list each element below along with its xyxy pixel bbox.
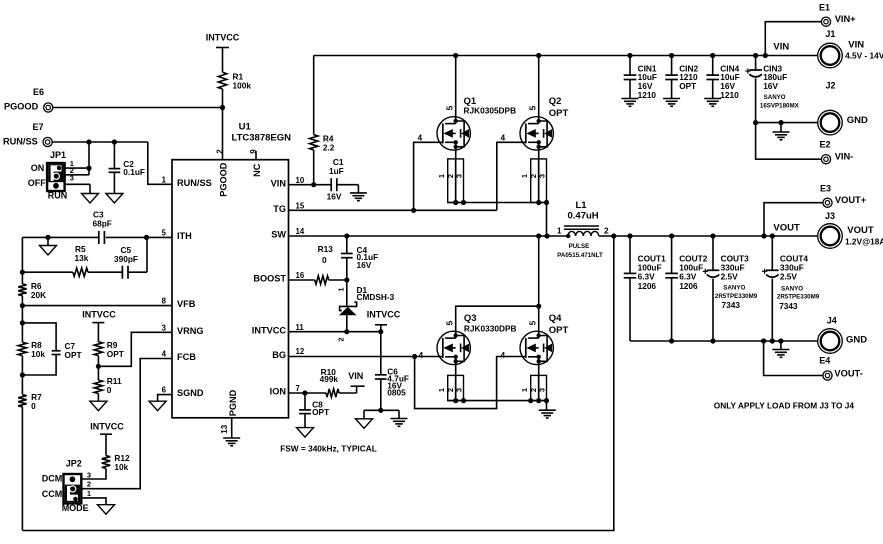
label COUT3 value: [721, 253, 750, 281]
svg-text:16V: 16V: [327, 191, 342, 201]
label Q1 gate pin4: [418, 132, 423, 142]
svg-text:3: 3: [455, 174, 464, 178]
wire E1 riser: [765, 22, 821, 56]
capacitor C6: [375, 332, 387, 411]
junction rail-Q2: [536, 53, 541, 58]
pin U1 VRNG name: [177, 326, 204, 336]
label R7 value: [31, 392, 42, 411]
resistor R10: [326, 389, 339, 397]
wire pads rail bottom: [448, 398, 547, 410]
capacitor C5: [122, 266, 128, 279]
svg-text:390pF: 390pF: [114, 254, 138, 264]
pin number 8: [162, 297, 167, 306]
pin U1 VIN name: [271, 178, 287, 188]
pin U1 BG name: [272, 350, 286, 360]
svg-text:RJK0305DPB: RJK0305DPB: [464, 105, 517, 115]
svg-text:J3: J3: [825, 211, 835, 221]
svg-text:2: 2: [529, 174, 538, 178]
svg-text:VOUT+: VOUT+: [835, 195, 867, 205]
ground CIN2: [663, 99, 680, 107]
label J1: [825, 29, 883, 60]
svg-text:TG: TG: [273, 204, 286, 214]
wire JP2 pin1 to ground: [81, 498, 106, 505]
svg-text:3: 3: [162, 323, 167, 332]
ground PGND: [223, 438, 240, 446]
package Q3 pads: [448, 375, 466, 403]
label CIN3 value: [763, 63, 787, 91]
pin U1 BOOST name: [253, 274, 286, 284]
wire RUN/SS net: [52, 142, 172, 184]
label D1 pin2: [337, 337, 346, 341]
pin number 5: [162, 229, 167, 238]
svg-text:SANYO: SANYO: [781, 286, 803, 293]
junction VFB: [20, 303, 25, 308]
resistor R9: [94, 342, 102, 356]
svg-text:1206: 1206: [679, 281, 698, 291]
label J3: [825, 211, 883, 247]
label C7 value: [65, 341, 82, 360]
svg-text:4: 4: [418, 132, 423, 142]
pin number 10: [296, 176, 305, 185]
pin U1 TG name: [273, 204, 286, 214]
wire PGND pin13: [231, 418, 233, 438]
svg-text:VOUT: VOUT: [773, 222, 800, 233]
diode D1 CMDSH-3: [339, 280, 357, 332]
pin U1 VFB name: [177, 299, 196, 309]
wire VRNG net: [98, 332, 172, 366]
svg-text:13: 13: [220, 424, 229, 433]
wire INTVCC to R12: [105, 434, 107, 455]
wire INTVCC to R1: [222, 48, 224, 73]
terminal E7: [43, 137, 52, 146]
junction VOUT-COUT3: [710, 233, 715, 238]
svg-text:E1: E1: [819, 2, 830, 12]
connector J3: [818, 224, 843, 249]
label Q1 pads pins: [437, 174, 463, 178]
svg-text:VOUT: VOUT: [847, 225, 874, 236]
pin number 3: [162, 323, 167, 332]
label JP1: [50, 150, 66, 160]
svg-text:GND: GND: [846, 335, 867, 346]
resistor R1: [218, 72, 226, 89]
wire BOOST net: [289, 279, 347, 281]
junction comp node: [20, 270, 25, 275]
junction GND-COUT4: [770, 338, 775, 343]
svg-text:2: 2: [87, 480, 91, 489]
pin number 16: [296, 271, 305, 280]
terminal E4: [823, 371, 832, 380]
wire R12 to JP2 pin3: [81, 469, 106, 480]
label R1 value: [233, 72, 252, 91]
svg-text:12: 12: [296, 347, 305, 356]
svg-text:VIN: VIN: [848, 39, 864, 50]
svg-text:4: 4: [501, 132, 506, 142]
ground C1: [350, 193, 367, 201]
svg-text:6: 6: [162, 386, 167, 395]
pin number 14: [296, 227, 305, 236]
svg-text:2.2: 2.2: [323, 143, 335, 153]
wire VFB to R8: [21, 306, 23, 343]
transistor Q1 RJK0305DPB: [437, 56, 470, 151]
package Q1 pads: [448, 159, 466, 205]
inductor L1: [564, 226, 599, 238]
junction GND-E4: [761, 338, 766, 343]
node INTVCC (top): [206, 32, 240, 47]
svg-text:U1: U1: [239, 122, 252, 133]
pin number 7: [296, 384, 300, 393]
svg-text:5: 5: [445, 320, 455, 325]
svg-text:JP1: JP1: [50, 150, 66, 160]
wire SGND to ground: [158, 395, 172, 402]
wire JP1 pin3 to ground: [65, 184, 90, 193]
capacitor COUT1: [624, 236, 637, 341]
svg-text:4: 4: [419, 350, 424, 360]
wire PGOOD net: [53, 108, 223, 160]
junction JP1 pin1: [86, 166, 91, 171]
ground Q3/Q4 source: [539, 410, 556, 418]
node INTVCC (mid): [82, 310, 116, 323]
node VIN tag: [348, 371, 364, 386]
transistor Q3 RJK0330DPB: [437, 331, 470, 364]
svg-text:R13: R13: [318, 244, 334, 254]
svg-text:1: 1: [557, 225, 562, 235]
label C2 value: [123, 159, 145, 177]
ground C8: [297, 428, 314, 438]
svg-text:INTVCC: INTVCC: [367, 309, 401, 319]
label Q4 pads pins: [520, 388, 546, 392]
wire SW to Q3/Q4 drains: [456, 236, 539, 331]
transistor Q2 OPT: [520, 56, 553, 151]
capacitor CIN3: [745, 56, 762, 123]
label R6 value: [31, 281, 46, 300]
pin U1 ION name: [270, 387, 287, 397]
svg-text:1210: 1210: [720, 90, 739, 100]
pin number 4: [162, 350, 167, 359]
pin U1 FCB name: [177, 352, 196, 362]
svg-text:2R5TPE330M9: 2R5TPE330M9: [777, 294, 820, 301]
label Q3 pads pins: [437, 388, 463, 392]
svg-text:OPT: OPT: [107, 349, 124, 359]
node INTVCC (bottom): [90, 421, 124, 434]
junction R9/R11/VRNG: [96, 364, 101, 369]
svg-text:0.1uF: 0.1uF: [123, 167, 145, 177]
svg-text:ION: ION: [270, 387, 287, 397]
label CIN4 value: [720, 63, 739, 100]
svg-text:J4: J4: [827, 316, 837, 326]
transistor Q4 OPT: [520, 331, 553, 364]
junction VOUT-feedback: [611, 233, 616, 238]
pin U1 INTVCC name: [252, 325, 287, 335]
svg-text:10k: 10k: [31, 349, 45, 359]
pin number 11: [296, 323, 305, 332]
svg-text:68pF: 68pF: [93, 219, 112, 229]
connector J2: [818, 110, 843, 135]
wire C6 grounds: [364, 410, 399, 419]
ground JP2: [98, 505, 115, 515]
svg-text:PA0515.471NLT: PA0515.471NLT: [557, 252, 603, 259]
junction ITH-gnd: [45, 235, 50, 240]
label JP2: [66, 458, 82, 468]
svg-text:5: 5: [528, 320, 538, 325]
wire CIN3 gnd line: [756, 122, 818, 124]
wire VIN rail: [314, 55, 818, 57]
wire R9 to R11: [97, 356, 99, 381]
svg-text:LTC3878EGN: LTC3878EGN: [232, 133, 292, 144]
junction CIN3 bottom: [753, 120, 758, 125]
capacitor C7: [22, 323, 60, 375]
label JP1 OFF: [28, 178, 46, 188]
svg-text:VIN+: VIN+: [835, 14, 856, 24]
label R13 value: [318, 244, 334, 265]
svg-text:16SVP180MX: 16SVP180MX: [760, 103, 800, 110]
resistor R13: [315, 276, 329, 284]
svg-text:E6: E6: [33, 87, 44, 97]
junction rail-CIN2: [669, 53, 674, 58]
svg-text:0: 0: [31, 401, 36, 411]
svg-text:1: 1: [87, 489, 91, 498]
label R12 value: [114, 453, 130, 472]
label C6 value: [387, 367, 409, 398]
jumper JP1: [47, 163, 65, 191]
svg-text:0: 0: [107, 385, 112, 395]
svg-text:100k: 100k: [233, 81, 252, 91]
capacitor CIN4: [706, 56, 719, 99]
resistor R7: [18, 395, 26, 407]
label JP1 RUN: [48, 191, 68, 201]
junction VOUT-E3: [761, 233, 766, 238]
ground C6 left: [356, 419, 373, 429]
svg-text:ITH: ITH: [177, 231, 192, 241]
svg-text:INTVCC: INTVCC: [90, 421, 124, 431]
svg-text:RUN: RUN: [48, 191, 68, 201]
op-amp U1 LTC3878EGN body: [172, 160, 289, 418]
svg-text:20K: 20K: [31, 290, 46, 300]
capacitor COUT4: [762, 236, 779, 341]
svg-text:10: 10: [296, 176, 305, 185]
pin number 12: [296, 347, 305, 356]
label JP1 pin1: [70, 159, 74, 168]
svg-text:SGND: SGND: [177, 388, 204, 398]
terminal E6: [44, 103, 53, 112]
svg-text:PULSE: PULSE: [569, 243, 590, 250]
junction ITH-C5: [144, 235, 149, 240]
label L1: [568, 200, 599, 222]
svg-text:499k: 499k: [320, 374, 339, 384]
label Q4 pin5: [528, 320, 538, 325]
resistor R11: [94, 380, 102, 393]
svg-text:VRNG: VRNG: [177, 326, 204, 336]
ground SGND: [149, 401, 166, 411]
capacitor CIN1: [624, 56, 637, 99]
label JP2 pin1: [87, 489, 91, 498]
wire FCB net: [81, 359, 172, 489]
connector J4: [818, 329, 843, 354]
junction RUN/SS-JP1: [86, 139, 91, 144]
label Q2: [549, 96, 569, 119]
junction gnd J2: [778, 120, 783, 125]
svg-text:7343: 7343: [779, 301, 798, 311]
svg-text:OPT: OPT: [549, 325, 569, 336]
junction BG-Q3gate: [412, 354, 417, 359]
wire INTVCC pin net: [289, 331, 381, 333]
svg-text:1uF: 1uF: [329, 166, 344, 176]
svg-text:16V: 16V: [357, 260, 372, 270]
wire E2 drop: [756, 123, 822, 160]
ground J2: [773, 132, 790, 140]
wire R1 to PGOOD node: [222, 89, 224, 108]
junction VOUT-COUT4: [770, 233, 775, 238]
label C3 value: [93, 210, 112, 229]
label CIN3 part: [760, 94, 800, 110]
junction R8 bottom: [20, 372, 25, 377]
label L1 part: [557, 243, 603, 259]
svg-text:2: 2: [604, 225, 609, 235]
junction rail-CIN1: [627, 53, 632, 58]
svg-text:OPT: OPT: [549, 108, 569, 119]
pin U1 NC name: [252, 163, 262, 177]
svg-text:16V: 16V: [763, 81, 778, 91]
svg-text:Q2: Q2: [549, 96, 562, 107]
resistor R12: [102, 456, 110, 469]
svg-text:SANYO: SANYO: [764, 94, 786, 101]
svg-text:OPT: OPT: [679, 81, 696, 91]
label L1 pin2: [604, 225, 609, 235]
svg-text:Q3: Q3: [464, 313, 477, 324]
svg-text:13k: 13k: [75, 253, 89, 263]
label C1 value: [327, 157, 344, 201]
pin U1 SW name: [271, 230, 286, 240]
svg-text:ONLY APPLY LOAD FROM J3 TO J4: ONLY APPLY LOAD FROM J3 TO J4: [714, 400, 855, 410]
label Q1: [464, 96, 517, 115]
svg-text:INTVCC: INTVCC: [82, 310, 116, 320]
resistor R5: [73, 268, 88, 276]
svg-text:DCM: DCM: [42, 474, 63, 484]
wire J4 ground stub: [780, 341, 782, 350]
svg-text:E4: E4: [819, 356, 830, 366]
label D1 pin1: [337, 287, 346, 291]
label E1: [819, 2, 856, 24]
capacitor C3: [99, 231, 105, 244]
label E7: [3, 122, 44, 146]
wire R8 to R7: [21, 356, 23, 395]
ground R11: [90, 401, 107, 411]
capacitor C2: [109, 142, 121, 194]
wire ION net: [289, 386, 357, 393]
ground J4: [772, 350, 789, 358]
label R9 value: [107, 340, 124, 359]
svg-text:7343: 7343: [722, 300, 741, 310]
package Q4 pads: [531, 375, 549, 403]
label JP1 pin2: [70, 166, 74, 175]
resistor R8: [18, 342, 26, 355]
svg-text:VOUT-: VOUT-: [834, 368, 862, 378]
pin U1 ITH name: [177, 231, 192, 241]
svg-text:1206: 1206: [638, 281, 657, 291]
label E6: [4, 87, 44, 112]
svg-text:CMDSH-3: CMDSH-3: [357, 292, 395, 302]
label U1: [232, 122, 292, 144]
label CIN1 value: [638, 63, 657, 100]
svg-text:5: 5: [445, 105, 455, 110]
label E2: [820, 140, 854, 162]
svg-text:OPT: OPT: [312, 407, 329, 417]
wire Q2 source to pads: [538, 150, 540, 202]
note load warning: [714, 400, 855, 410]
label R4 value: [323, 134, 335, 153]
svg-text:RUN/SS: RUN/SS: [177, 178, 212, 188]
label R11 value: [107, 376, 122, 395]
wire VFB net: [22, 305, 172, 307]
svg-text:L1: L1: [576, 200, 588, 211]
svg-text:VIN: VIN: [348, 371, 363, 381]
resistor R6: [18, 272, 26, 305]
junction rail-CIN3: [753, 53, 758, 58]
label COUT1 value: [638, 253, 667, 291]
svg-text:Q4: Q4: [549, 313, 562, 324]
wire comp row: [22, 237, 147, 272]
svg-text:1: 1: [162, 176, 167, 185]
junction SW-pads: [544, 233, 549, 238]
label FSW note: [280, 443, 377, 453]
package Q2 pads: [531, 159, 549, 205]
svg-text:11: 11: [296, 323, 305, 332]
wire R7 to bottom rail: [21, 407, 23, 531]
wire ITH net: [22, 236, 172, 238]
svg-text:0.47uH: 0.47uH: [568, 211, 599, 222]
label JP2 pin3: [87, 470, 91, 479]
pin U1 PGND name: [228, 389, 238, 416]
svg-text:VFB: VFB: [177, 299, 196, 309]
label C4 value: [357, 245, 379, 270]
junction PGOOD/R1: [220, 105, 225, 110]
svg-text:15: 15: [296, 201, 305, 210]
svg-text:VIN-: VIN-: [835, 152, 854, 162]
wire BG net: [289, 357, 527, 409]
junction rail-E1: [763, 53, 768, 58]
pin number 13: [220, 424, 229, 433]
svg-text:FCB: FCB: [177, 352, 196, 362]
pin number 1: [162, 176, 167, 185]
svg-text:OFF: OFF: [28, 178, 46, 188]
label J2: [826, 81, 868, 127]
label Q3 gate pin4: [419, 350, 424, 360]
label L1 pin1: [557, 225, 562, 235]
wire Q4 source to pads: [538, 365, 540, 401]
pin U1 RUN/SS name: [177, 178, 212, 188]
svg-text:INTVCC: INTVCC: [206, 32, 240, 42]
capacitor COUT2: [665, 236, 678, 341]
svg-text:4.5V - 14V: 4.5V - 14V: [845, 51, 883, 61]
junction rail-CIN4: [710, 53, 715, 58]
svg-text:J2: J2: [826, 81, 836, 91]
svg-text:RUN/SS: RUN/SS: [3, 136, 38, 146]
label Q4: [549, 313, 569, 336]
junction VOUT-COUT2: [669, 233, 674, 238]
junction INTVCC-C6: [378, 329, 383, 334]
wire pads rail top: [448, 203, 547, 237]
svg-text:J1: J1: [825, 29, 835, 39]
svg-text:BOOST: BOOST: [253, 274, 286, 284]
label JP1 pin3: [70, 174, 74, 183]
label COUT4 value: [780, 253, 809, 281]
label VOUT net: [773, 222, 800, 233]
junction R8/C7 top: [20, 320, 25, 325]
capacitor C4: [341, 236, 353, 280]
svg-text:SW: SW: [271, 230, 286, 240]
junction GND-COUT2: [669, 338, 674, 343]
svg-text:PGND: PGND: [228, 389, 238, 416]
svg-text:VIN: VIN: [271, 178, 287, 188]
